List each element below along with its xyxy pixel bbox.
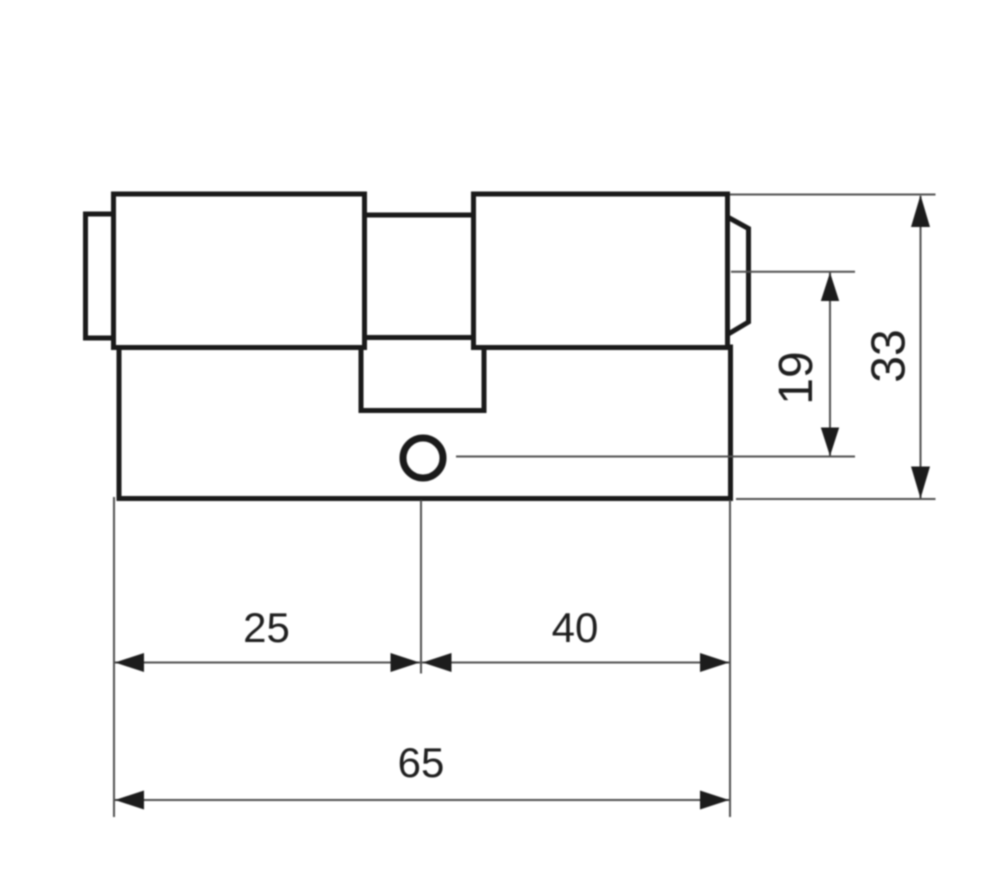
right plug block [474,194,728,348]
40 arrow right [700,653,729,672]
svg-text:19: 19 [770,351,823,404]
fixing screw hole circle [403,438,443,478]
svg-text:33: 33 [863,329,916,382]
33 bottom extension line [736,498,936,500]
web bottom chamfer edge [366,335,472,340]
25-40 dimension line [114,662,730,664]
right end cam tab [728,217,749,335]
65 arrow left [115,791,144,810]
svg-text:25: 25 [243,604,290,651]
33 dimension line [920,196,922,498]
svg-text:65: 65 [398,739,445,786]
left extension line [113,497,115,817]
40 arrow left [423,653,452,672]
left end cap tab [86,214,114,338]
65 arrow right [700,791,729,810]
left plug block [114,194,365,348]
19 arrow down [821,428,839,457]
33 arrow up [911,195,930,227]
right extension line [729,500,731,817]
19 top extension line [731,271,855,273]
19 arrow up [821,273,839,302]
circle leader / 19 bottom extension line [456,456,855,458]
33 top extension line [730,194,936,196]
middle extension line [420,500,422,674]
cylinder body with cam notch [119,347,731,499]
65 dimension line [114,799,730,801]
25 arrow right [391,653,420,672]
25 arrow left [115,653,144,672]
33 arrow down [911,467,930,499]
svg-text:40: 40 [552,604,599,651]
19 dimension line [829,272,831,456]
web top edge between plugs [364,213,474,218]
